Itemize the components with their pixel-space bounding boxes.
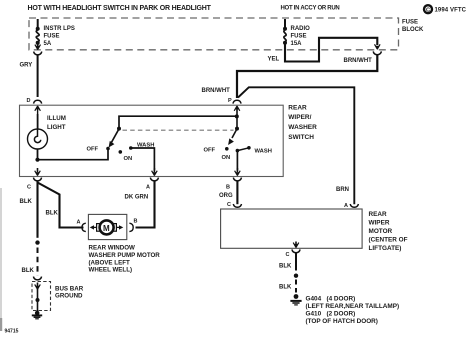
svg-text:WHEEL WELL): WHEEL WELL) xyxy=(89,267,133,274)
svg-text:M: M xyxy=(103,224,110,233)
washer switch S2 ON contact xyxy=(222,149,240,161)
svg-text:GRY: GRY xyxy=(20,63,33,69)
svg-text:BLK: BLK xyxy=(20,199,33,205)
fuse F1 label INSTR LPS FUSE 5A xyxy=(44,26,75,47)
svg-text:MOTOR: MOTOR xyxy=(369,228,393,235)
ground symbol G404/G410 xyxy=(290,294,301,305)
svg-text:REAR: REAR xyxy=(369,211,387,218)
wire BLK motor ground xyxy=(279,253,296,271)
svg-text:FUSE: FUSE xyxy=(402,20,418,26)
fuse F2 RADIO 15A xyxy=(283,19,287,45)
svg-text:SWITCH: SWITCH xyxy=(288,134,314,141)
wire YEL routing xyxy=(285,38,377,62)
svg-text:HOT WITH HEADLIGHT SWITCH IN P: HOT WITH HEADLIGHT SWITCH IN PARK OR HEA… xyxy=(28,5,212,12)
svg-text:D: D xyxy=(27,98,31,104)
wire BLK dashed to ground xyxy=(279,280,296,293)
svg-text:REAR WINDOW: REAR WINDOW xyxy=(89,245,136,252)
wiper switch S1 ON contact xyxy=(119,150,133,162)
wire ON contact to pin B xyxy=(236,151,238,171)
svg-text:C: C xyxy=(426,7,430,13)
svg-text:G404 (4 DOOR): G404 (4 DOOR) xyxy=(306,296,356,303)
svg-text:HOT IN ACCY OR RUN: HOT IN ACCY OR RUN xyxy=(281,5,340,11)
fuse block label xyxy=(402,20,424,33)
svg-text:94715: 94715 xyxy=(5,329,19,334)
svg-text:C: C xyxy=(27,184,31,190)
node lamp junction xyxy=(35,158,39,162)
svg-text:BLK: BLK xyxy=(46,211,59,217)
mechanical linkage dashed xyxy=(123,129,234,131)
bus bar connector xyxy=(33,277,41,280)
pin B connector at switch bottom xyxy=(226,168,241,190)
wire pivot riser to feed rail xyxy=(119,116,237,128)
svg-text:A: A xyxy=(77,220,81,226)
washer switch S2 lever xyxy=(228,129,237,145)
wire DK GRN to washer motor xyxy=(136,181,155,228)
node splice on motor BLK xyxy=(294,274,298,278)
header label HOT IN ACCY OR RUN xyxy=(281,5,340,11)
svg-text:RADIO: RADIO xyxy=(291,26,311,32)
svg-text:(LEFT REAR,NEAR TAILLAMP): (LEFT REAR,NEAR TAILLAMP) xyxy=(306,303,400,310)
washer switch S2 OFF contact xyxy=(204,147,229,153)
pin C connector at motor bottom xyxy=(286,242,301,259)
svg-text:BRN: BRN xyxy=(336,187,349,193)
washer pump label xyxy=(89,245,161,274)
wiper switch S1 OFF contact xyxy=(87,147,110,153)
wire DK GRN label xyxy=(125,195,149,201)
svg-text:(TOP OF HATCH DOOR): (TOP OF HATCH DOOR) xyxy=(306,318,378,325)
ground label G404 G410 xyxy=(306,296,400,325)
pin D connector at switch xyxy=(27,98,42,114)
svg-text:G410 (2 DOOR): G410 (2 DOOR) xyxy=(306,311,356,318)
svg-text:BLK: BLK xyxy=(22,268,35,274)
svg-text:A: A xyxy=(146,184,150,190)
svg-text:ILLUM: ILLUM xyxy=(47,115,66,122)
page number 94715 xyxy=(5,329,19,335)
svg-text:ORG: ORG xyxy=(219,193,233,199)
svg-text:P: P xyxy=(228,98,232,104)
node splice on BLK xyxy=(35,240,39,244)
svg-text:1994 VFTC: 1994 VFTC xyxy=(435,8,467,14)
header label HOT WITH HEADLIGHT SWITCH xyxy=(28,5,212,12)
bus bar ground dashed box xyxy=(32,282,51,311)
pin C connector at switch bottom xyxy=(27,168,42,190)
wire YEL label xyxy=(268,57,280,63)
wire BLK branch to washer pump xyxy=(38,183,84,228)
svg-text:DK GRN: DK GRN xyxy=(125,195,149,201)
svg-text:BLK: BLK xyxy=(279,264,292,270)
svg-text:OFF: OFF xyxy=(87,147,99,153)
svg-text:(CENTER OF: (CENTER OF xyxy=(369,237,408,244)
svg-text:15A: 15A xyxy=(291,41,303,47)
node feed rail junction xyxy=(235,114,239,118)
svg-text:WIPER: WIPER xyxy=(369,219,390,226)
wire lamp junction to OFF contact xyxy=(38,150,109,160)
wire BRN/WHT label right xyxy=(344,58,373,64)
scan artifact left edge xyxy=(0,188,2,331)
fuse F1 INSTR LPS 5A xyxy=(34,19,42,55)
pin A connector at motor top xyxy=(344,203,358,209)
wire BLK vertical from pin C xyxy=(36,181,38,238)
illumination lamp ILLUM LIGHT xyxy=(28,114,66,159)
svg-text:ON: ON xyxy=(124,156,133,162)
svg-text:C: C xyxy=(286,252,290,258)
svg-text:FUSE: FUSE xyxy=(291,34,307,40)
svg-text:5A: 5A xyxy=(44,41,52,47)
svg-text:BRN/WHT: BRN/WHT xyxy=(344,58,373,64)
wire BLK label left xyxy=(20,199,33,205)
svg-text:B: B xyxy=(134,219,138,225)
wire BRN/WHT to pin P xyxy=(237,55,377,98)
rear wiper motor label xyxy=(369,211,408,252)
svg-text:REAR: REAR xyxy=(288,104,307,111)
wire ORG jumper xyxy=(219,181,237,204)
pin C connector at motor top xyxy=(227,202,241,208)
svg-text:YEL: YEL xyxy=(268,57,280,63)
svg-text:C: C xyxy=(227,202,231,208)
svg-text:GROUND: GROUND xyxy=(55,292,83,299)
svg-text:WASHER PUMP MOTOR: WASHER PUMP MOTOR xyxy=(89,252,161,259)
switch label REAR WIPER/WASHER SWITCH xyxy=(288,104,317,141)
svg-text:B: B xyxy=(226,184,230,190)
svg-text:BRN/WHT: BRN/WHT xyxy=(202,88,231,94)
svg-text:FUSE: FUSE xyxy=(44,34,60,40)
svg-text:WASHER: WASHER xyxy=(288,124,317,131)
pin P connector at switch xyxy=(228,98,241,129)
ground symbol G bus bar xyxy=(32,311,42,319)
rear wiper motor box xyxy=(221,209,363,248)
svg-text:OFF: OFF xyxy=(204,147,216,153)
wire GRY vertical xyxy=(37,55,39,97)
wire BLK dashed to bus bar xyxy=(22,248,38,276)
wire inside bus bar xyxy=(35,283,41,312)
wire BRN to rear wiper motor xyxy=(238,87,354,204)
svg-text:BUS BAR: BUS BAR xyxy=(55,285,84,292)
wire BRN/WHT label at switch xyxy=(202,88,231,94)
washer pump motor M1 symbol xyxy=(90,220,124,234)
fuse F2 label RADIO FUSE 15A xyxy=(291,26,311,47)
pin A connector at switch bottom xyxy=(146,168,158,190)
bus bar ground label xyxy=(55,285,84,299)
svg-text:(ABOVE LEFT: (ABOVE LEFT xyxy=(89,259,130,266)
svg-text:BLK: BLK xyxy=(279,285,292,291)
wiper switch S1 WASH contact xyxy=(129,142,154,149)
svg-text:A: A xyxy=(344,203,348,209)
svg-text:BLOCK: BLOCK xyxy=(402,27,424,33)
wiper switch S1 lever xyxy=(109,127,121,148)
wire WASH contact to pin A xyxy=(131,148,155,171)
pin A connector at washer pump xyxy=(77,220,86,232)
washer switch S2 pivot xyxy=(235,127,239,131)
svg-text:LIGHT: LIGHT xyxy=(47,124,66,131)
svg-text:WIPER/: WIPER/ xyxy=(288,114,311,121)
svg-text:INSTR LPS: INSTR LPS xyxy=(44,26,75,32)
rear wiper/washer switch box xyxy=(20,105,284,176)
copyright logo 1994 VFTC xyxy=(424,5,467,13)
connector C200 at fuse block exit xyxy=(373,44,381,54)
washer switch S2 WASH contact xyxy=(237,146,271,154)
fuse block dashed box xyxy=(29,18,399,50)
pin B connector at washer pump xyxy=(129,219,137,232)
svg-text:ON: ON xyxy=(222,155,231,161)
svg-text:LIFTGATE): LIFTGATE) xyxy=(369,245,402,252)
wire GRY label xyxy=(20,63,33,69)
washer pump motor M1 box xyxy=(88,214,126,239)
svg-text:WASH: WASH xyxy=(255,148,272,154)
